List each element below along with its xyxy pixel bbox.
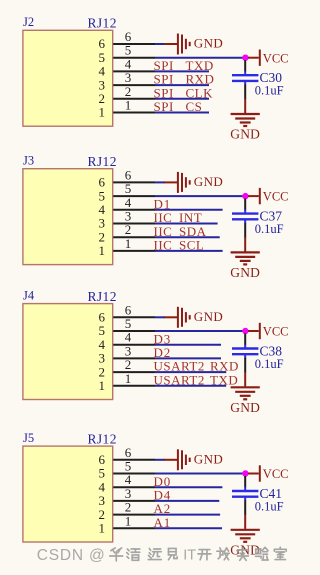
wire J5 pin 2 net <box>155 514 220 516</box>
J3 pin 4 stub <box>113 209 155 211</box>
svg-text:GND: GND <box>230 265 260 280</box>
junction dot (J3 VCC node) <box>242 193 248 199</box>
svg-text:GND: GND <box>194 36 223 51</box>
svg-text:IT: IT <box>183 548 196 564</box>
ground symbol lead (J3 pin6) <box>164 181 177 183</box>
VCC power bar (J4) <box>259 323 261 339</box>
svg-text:VCC: VCC <box>263 467 289 481</box>
junction dot (J5 VCC node) <box>242 470 248 476</box>
VCC power bar (J2) <box>259 50 261 66</box>
watermark character hua <box>110 548 123 561</box>
svg-text:VCC: VCC <box>263 190 289 204</box>
capacitor C30 top lead <box>244 71 246 75</box>
svg-text:GND: GND <box>194 309 223 324</box>
capacitor C38 plates <box>232 349 258 355</box>
J2 pin 5 stub <box>113 57 155 59</box>
wire J3 pin 4 net <box>155 209 223 211</box>
earth ground bars (J5) <box>231 530 260 542</box>
wire J4 pin 2 net <box>155 371 226 373</box>
wire junction to VCC symbol (J2) <box>248 57 259 59</box>
svg-text:GND: GND <box>194 451 223 466</box>
svg-text:RJ12: RJ12 <box>88 16 117 31</box>
svg-text:J4: J4 <box>23 289 35 303</box>
earth ground stem (J3) <box>244 237 246 251</box>
svg-text:J2: J2 <box>23 15 34 29</box>
svg-text:0.1uF: 0.1uF <box>255 500 284 514</box>
wire J4 pin 3 net <box>155 357 221 359</box>
svg-text:GND: GND <box>194 174 223 189</box>
svg-text:0.1uF: 0.1uF <box>255 222 284 236</box>
svg-text:GND: GND <box>230 127 260 142</box>
earth ground bars (J3) <box>231 252 260 264</box>
wire J5 pin 4 net <box>155 486 222 488</box>
VCC power bar (J5) <box>259 465 261 481</box>
earth ground stem (J2) <box>244 99 246 113</box>
svg-text:1: 1 <box>125 236 132 251</box>
wire J3 pin 1 net <box>155 250 223 252</box>
earth ground bars (J4) <box>231 387 260 399</box>
wire J4 pin 4 net <box>155 344 221 346</box>
watermark character shi <box>238 547 249 560</box>
ground symbol lead (J5 pin6) <box>164 459 177 461</box>
J2 pin 1 stub <box>113 112 155 114</box>
svg-text:1: 1 <box>99 243 106 258</box>
J5 pin 4 stub <box>113 486 155 488</box>
capacitor C38 top lead <box>244 345 246 349</box>
svg-text:USART2TXD: USART2TXD <box>154 372 239 387</box>
wire J2 pin 1 net <box>155 112 209 114</box>
earth ground stem (J4) <box>244 372 246 386</box>
J5 pin 1 stub <box>113 527 155 529</box>
J5 pin 6 stub <box>113 459 155 461</box>
svg-text:0.1uF: 0.1uF <box>255 357 284 371</box>
capacitor C41 bottom lead <box>244 497 246 501</box>
J2 pin 2 stub <box>113 98 155 100</box>
J3 pin 3 stub <box>113 223 155 225</box>
wire J5 pin 3 net <box>155 500 219 502</box>
capacitor C30 bottom lead <box>244 81 246 85</box>
svg-text:0.1uF: 0.1uF <box>255 84 284 98</box>
J5 pin 5 stub <box>113 473 155 475</box>
ground symbol bars (J2 pin6) <box>178 34 190 55</box>
J2 pin 4 stub <box>113 70 155 72</box>
ground symbol lead (J4 pin6) <box>164 316 177 318</box>
wire J3 pin6 to ground <box>155 181 165 183</box>
J4 pin 4 stub <box>113 344 155 346</box>
J4 pin 1 stub <box>113 385 155 387</box>
watermark character fang <box>217 548 229 560</box>
wire capacitor C37 to ground <box>244 223 246 238</box>
wire VCC node down to capacitor C41 <box>244 476 246 488</box>
svg-text:VCC: VCC <box>263 51 289 65</box>
wire VCC node down to capacitor C37 <box>244 199 246 211</box>
svg-text:1: 1 <box>125 513 132 528</box>
svg-text:1: 1 <box>125 98 132 113</box>
watermark character shi2 <box>274 547 286 559</box>
J4 pin 6 stub <box>113 316 155 318</box>
wire junction to VCC symbol (J3) <box>248 195 259 197</box>
connector J4 body <box>23 304 113 400</box>
capacitor C41 top lead <box>244 487 246 491</box>
wire capacitor C41 to ground <box>244 500 246 515</box>
svg-text:RJ12: RJ12 <box>88 154 117 169</box>
svg-text:1: 1 <box>99 105 106 120</box>
watermark character yan <box>255 547 268 560</box>
J4 pin 2 stub <box>113 371 155 373</box>
J3 pin 5 stub <box>113 195 155 197</box>
wire J2 pin 2 net <box>155 98 209 100</box>
svg-text:CSDN @: CSDN @ <box>37 547 106 564</box>
svg-text:RJ12: RJ12 <box>88 431 117 446</box>
wire capacitor C38 to ground <box>244 358 246 373</box>
J5 pin 2 stub <box>113 514 155 516</box>
wire J4 pin6 to ground <box>155 316 165 318</box>
wire J5 pin5 to VCC rail <box>155 473 243 475</box>
capacitor C37 plates <box>232 214 258 220</box>
J2 pin 3 stub <box>113 84 155 86</box>
svg-text:RJ12: RJ12 <box>88 289 117 304</box>
earth ground bars (J2) <box>231 114 260 126</box>
capacitor C41 plates <box>232 491 258 497</box>
J5 pin 3 stub <box>113 500 155 502</box>
svg-text:A1: A1 <box>154 515 172 530</box>
J3 pin 6 stub <box>113 181 155 183</box>
ground symbol bars (J5 pin6) <box>178 449 190 470</box>
svg-text:GND: GND <box>230 400 260 415</box>
watermark IT text <box>183 548 196 564</box>
J3 pin 2 stub <box>113 236 155 238</box>
wire J2 pin 3 net <box>155 84 209 86</box>
svg-text:1: 1 <box>125 371 132 386</box>
watermark CSDN text <box>37 547 106 564</box>
VCC power bar (J3) <box>259 188 261 204</box>
capacitor C37 top lead <box>244 210 246 214</box>
wire junction to VCC symbol (J5) <box>248 473 259 475</box>
wire J3 pin 2 net <box>155 236 220 238</box>
earth ground stem (J5) <box>244 515 246 529</box>
J2 pin 6 stub <box>113 43 155 45</box>
svg-text:J5: J5 <box>23 431 34 445</box>
capacitor C30 plates <box>232 75 258 81</box>
ground symbol bars (J4 pin6) <box>178 307 190 328</box>
wire J3 pin5 to VCC rail <box>155 195 243 197</box>
watermark character jian <box>168 548 177 559</box>
watermark character qing <box>127 549 140 560</box>
connector J2 body <box>23 30 113 126</box>
J4 pin 5 stub <box>113 330 155 332</box>
J4 pin 3 stub <box>113 357 155 359</box>
ground symbol bars (J3 pin6) <box>178 172 190 193</box>
ground symbol lead (J2 pin6) <box>164 43 177 45</box>
connector J3 body <box>23 169 113 265</box>
junction dot (J4 VCC node) <box>242 328 248 334</box>
svg-text:IICSCL: IICSCL <box>154 238 205 253</box>
wire junction to VCC symbol (J4) <box>248 330 259 332</box>
wire VCC node down to capacitor C30 <box>244 60 246 71</box>
wire J2 pin6 to ground <box>155 43 165 45</box>
wire J4 pin 1 net <box>155 385 226 387</box>
wire J3 pin 3 net <box>155 223 218 225</box>
watermark character yuan <box>148 548 161 559</box>
wire J5 pin6 to ground <box>155 459 165 461</box>
capacitor C38 bottom lead <box>244 354 246 358</box>
capacitor C37 bottom lead <box>244 219 246 223</box>
wire J2 pin5 to VCC rail <box>155 57 243 59</box>
junction dot (J2 VCC node) <box>242 55 248 61</box>
svg-text:J3: J3 <box>23 154 34 168</box>
svg-text:VCC: VCC <box>263 325 289 339</box>
svg-text:1: 1 <box>99 378 106 393</box>
J3 pin 1 stub <box>113 250 155 252</box>
wire J2 pin 4 net <box>155 70 209 72</box>
wire capacitor C30 to ground <box>244 85 246 100</box>
connector J5 body <box>23 446 113 542</box>
wire VCC node down to capacitor C38 <box>244 334 246 346</box>
watermark character kai <box>198 550 211 560</box>
wire J4 pin5 to VCC rail <box>155 330 243 332</box>
wire J5 pin 1 net <box>155 527 222 529</box>
svg-text:1: 1 <box>99 521 106 536</box>
